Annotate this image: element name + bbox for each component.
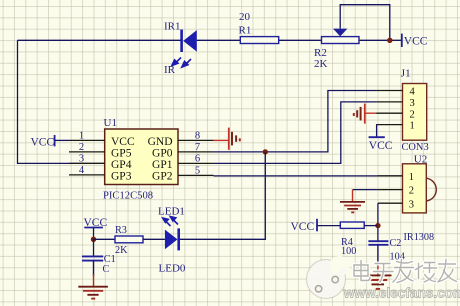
value 20 [239, 11, 251, 23]
ground at U1 pin8 [214, 128, 240, 150]
value 2K [314, 58, 328, 70]
svg-text:GP3: GP3 [111, 171, 132, 183]
wire: U2 pin2 to ground [353, 189, 378, 191]
U2 pin numbers [409, 172, 414, 210]
label R2 [314, 47, 327, 59]
svg-text:GP1: GP1 [152, 159, 173, 171]
power VCC top right [402, 34, 428, 48]
label U1 [104, 117, 117, 129]
svg-text:U2: U2 [414, 154, 427, 166]
value C [103, 264, 110, 275]
svg-text:7: 7 [195, 142, 200, 153]
J1 pin numbers [410, 87, 416, 132]
power VCC at U1 pin1 [31, 135, 70, 148]
svg-text:C: C [103, 264, 110, 275]
wire: junction to C1 [93, 239, 95, 255]
junction at R4/C2 [375, 223, 380, 228]
svg-text:4: 4 [79, 165, 85, 176]
label IR [164, 64, 176, 76]
svg-text:GP4: GP4 [111, 159, 132, 171]
U1 right pins 8-5 [178, 140, 214, 175]
svg-text:4: 4 [410, 87, 416, 98]
svg-text:LED0: LED0 [159, 263, 186, 275]
capacitor C2 [368, 241, 388, 245]
junction at VCC/R3/C1 [91, 237, 96, 242]
label R1 [239, 25, 252, 37]
svg-text:1: 1 [410, 121, 415, 132]
IR1 emission arrows [172, 58, 191, 68]
label C1 [104, 254, 116, 265]
resistor R3 [115, 236, 143, 243]
resistor R4 [340, 222, 378, 228]
IC U1 PIC12C508 body [105, 129, 178, 185]
watermark text 电子发烧友 (stylized) [354, 260, 457, 283]
svg-text:3: 3 [79, 153, 84, 164]
wire: C2 to ground [377, 245, 379, 263]
label C2 [390, 238, 402, 249]
label IR1 [164, 21, 181, 33]
LED LED0 (indicator diode) [165, 228, 179, 250]
power VCC at R4 [291, 219, 341, 233]
svg-text:8: 8 [195, 130, 200, 141]
ground below C2 [364, 262, 392, 289]
value 2K [115, 245, 128, 256]
power VCC at R3 [84, 217, 108, 240]
watermark url text [343, 285, 460, 300]
svg-text:3: 3 [409, 199, 414, 210]
label CON3 [402, 142, 429, 153]
wire: R2 wiper loop [340, 5, 390, 41]
J1 pins [376, 91, 402, 125]
wire: GP1 net to J1 pin3 [214, 102, 377, 163]
resistor R1 [240, 37, 278, 44]
wire: C1 to ground [93, 261, 95, 276]
label U2 [414, 154, 427, 166]
svg-text:VCC: VCC [369, 140, 393, 152]
svg-text:100: 100 [341, 246, 356, 257]
U1 left pin numbers [79, 130, 85, 176]
svg-text:3: 3 [410, 98, 415, 109]
value 104 [390, 251, 405, 262]
svg-text:2K: 2K [314, 58, 328, 70]
label LED1 [158, 205, 185, 217]
capacitor C1 [82, 256, 103, 260]
wire: branch down to LED0 [180, 152, 265, 239]
U1 inner pin names [111, 136, 173, 183]
svg-text:GND: GND [148, 136, 173, 148]
label R4 [341, 237, 353, 248]
svg-text:VCC: VCC [31, 136, 55, 148]
svg-text:J1: J1 [401, 68, 411, 80]
power VCC at J1 pin1 [369, 125, 393, 152]
label PIC12C508 [103, 190, 153, 201]
wire: junction to R3 [94, 238, 116, 240]
wire: left vertical branch to U1 pin3 [18, 40, 105, 163]
U1 left pins 1-4 [69, 140, 105, 175]
svg-text:LED1: LED1 [158, 205, 185, 217]
svg-text:IR1308: IR1308 [404, 232, 435, 243]
svg-text:R2: R2 [314, 47, 327, 59]
svg-text:2: 2 [79, 142, 84, 153]
wire: top net from left corner to VCC [18, 39, 402, 41]
ground below C1 [78, 274, 108, 299]
svg-text:R3: R3 [115, 225, 127, 236]
wire: R3 to LED0 [143, 238, 165, 240]
svg-text:VCC: VCC [291, 221, 315, 233]
ground at J1 pin2 [354, 104, 376, 124]
svg-text:CON3: CON3 [402, 142, 429, 153]
svg-text:5: 5 [195, 165, 200, 176]
junction on GP0 net [263, 149, 268, 154]
svg-text:GP2: GP2 [152, 171, 173, 183]
potentiometer R2 [322, 29, 360, 44]
svg-text:GP0: GP0 [152, 148, 173, 160]
watermark logo circle [307, 256, 350, 299]
svg-text:U1: U1 [104, 117, 117, 129]
connector J1 body [403, 84, 427, 141]
wire: U2 pin3 down to R4/C2 [377, 203, 379, 241]
svg-text:2: 2 [409, 186, 414, 197]
junction at R2/VCC [387, 38, 392, 43]
svg-text:2K: 2K [115, 245, 128, 256]
ground at U2 pin2 [340, 190, 365, 213]
svg-text:VCC: VCC [111, 136, 135, 148]
svg-text:R1: R1 [239, 25, 252, 37]
svg-text:IR: IR [164, 64, 176, 76]
svg-text:C2: C2 [390, 238, 402, 249]
wire: GP2 net to U2 pin1 [214, 175, 403, 177]
LED0 emission arrows [163, 217, 178, 227]
svg-text:1: 1 [409, 172, 414, 183]
IR receiver U2 body [403, 164, 437, 213]
U2 pins [378, 176, 403, 203]
wire: GP0 net to J1 pin4 [214, 91, 377, 152]
label LED0 [159, 263, 186, 275]
LED IR1 (infrared emitter diode) [182, 30, 197, 53]
svg-text:2: 2 [410, 109, 415, 120]
U1 right pin numbers [195, 130, 200, 176]
label J1 [401, 68, 411, 80]
value 100 [341, 246, 356, 257]
label IR1308 [404, 232, 435, 243]
svg-text:PIC12C508: PIC12C508 [103, 190, 153, 201]
svg-text:www.elecfans.com: www.elecfans.com [343, 285, 460, 300]
svg-text:20: 20 [239, 11, 251, 23]
svg-text:6: 6 [195, 153, 200, 164]
label R3 [115, 225, 127, 236]
svg-text:GP5: GP5 [111, 148, 132, 160]
svg-text:1: 1 [79, 130, 84, 141]
svg-text:VCC: VCC [404, 36, 428, 48]
svg-text:IR1: IR1 [164, 21, 181, 33]
